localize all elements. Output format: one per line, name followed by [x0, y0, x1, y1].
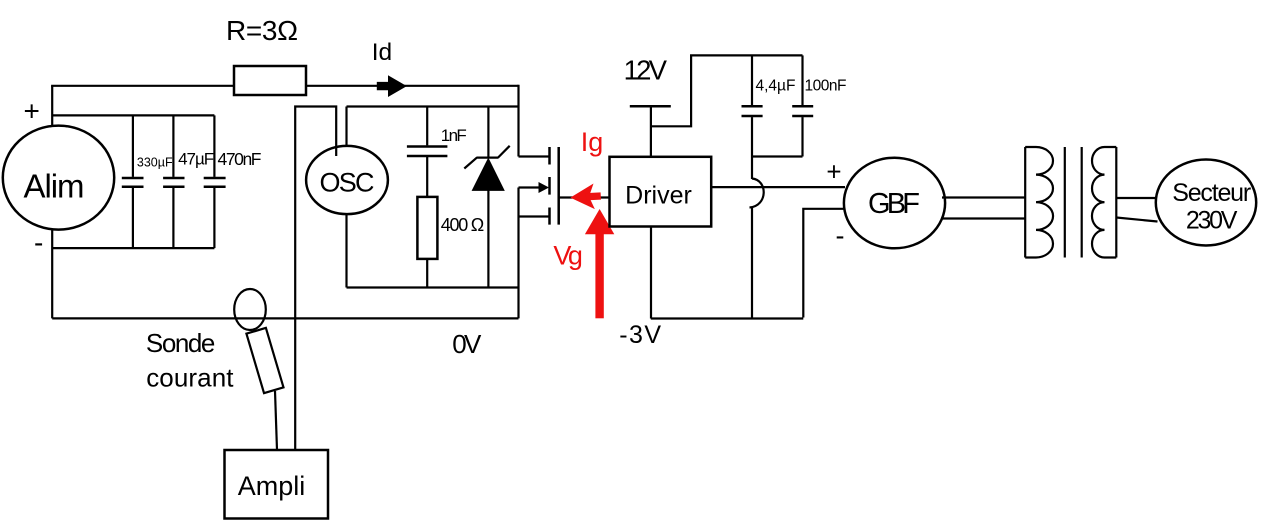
label 330uF: [137, 156, 173, 170]
svg-text:47µF: 47µF: [178, 150, 214, 169]
MOSFET body lead with arrow: [519, 182, 550, 193]
MOSFET gate lead to Driver: [559, 196, 610, 198]
arrow Id current direction: [377, 75, 407, 97]
svg-text:-: -: [34, 227, 43, 258]
svg-text:230V: 230V: [1186, 206, 1238, 234]
label OSC: [320, 168, 375, 198]
OSC circle: [306, 146, 388, 214]
label 400 ohm: [441, 215, 484, 235]
svg-text:R=3Ω: R=3Ω: [226, 15, 298, 46]
MOSFET channel bar segments: [548, 147, 551, 225]
svg-text:4,4µF: 4,4µF: [756, 78, 796, 95]
wire 12V to Driver top: [650, 106, 652, 157]
source Secteur circle: [1156, 160, 1256, 246]
wire capacitor bank top: [52, 114, 214, 116]
capacitor C3 470nF: [204, 115, 226, 248]
svg-text:470nF: 470nF: [218, 149, 262, 169]
svg-text:Alim: Alim: [24, 168, 85, 205]
svg-text:0V: 0V: [452, 329, 482, 359]
label 4,4uF: [756, 78, 796, 95]
wire source-body vertical to ground rail: [517, 188, 519, 319]
wire Alim top lead: [51, 86, 53, 126]
red arrow Ig: [570, 183, 602, 210]
svg-text:Id: Id: [372, 39, 392, 66]
svg-text:Sonde: Sonde: [146, 328, 216, 358]
label 470nF: [218, 149, 262, 169]
resistor 400 ohm: [417, 197, 437, 259]
svg-text:400 Ω: 400 Ω: [441, 215, 484, 235]
wire top rail left (Alim to R): [51, 85, 234, 87]
svg-text:330µF: 330µF: [137, 156, 173, 170]
label courant: [146, 363, 234, 393]
label Driver: [625, 182, 692, 210]
label minus GBF: [836, 220, 845, 250]
svg-text:Driver: Driver: [625, 182, 692, 210]
wire inner box bottom rail: [347, 286, 519, 288]
capacitor 100nF: [792, 55, 813, 156]
resistor R=3ohm: [234, 66, 306, 95]
svg-text:-3V: -3V: [619, 321, 661, 349]
wire Driver bottom to -3V rail: [650, 227, 652, 319]
GBF circle: [844, 158, 945, 249]
wire probe cable to Ampli: [275, 391, 277, 450]
transformer primary winding: [1025, 147, 1053, 258]
label plus GBF: [826, 157, 841, 187]
label Ig red: [581, 127, 604, 157]
wire GBF to transformer upper: [942, 196, 1025, 198]
label Id: [372, 39, 392, 66]
label minus Alim: [34, 227, 43, 258]
label Alim: [24, 168, 85, 205]
capacitor C2 47uF: [163, 115, 184, 248]
label Secteur: [1172, 179, 1251, 207]
sonde courant clamp ellipse: [234, 289, 266, 330]
svg-text:Ig: Ig: [581, 127, 604, 157]
label Sonde: [146, 328, 216, 358]
label Ampli: [238, 471, 306, 501]
label 230V: [1186, 206, 1238, 234]
wire transformer to Secteur lower: [1116, 218, 1157, 222]
capacitor 4,4uF: [742, 55, 763, 156]
zener diode bottom lead: [487, 190, 489, 287]
wire capacitor bank bottom: [52, 247, 214, 249]
MOSFET drain lead: [519, 155, 550, 157]
wire transformer to Secteur upper: [1116, 197, 1157, 199]
svg-text:OSC: OSC: [320, 168, 375, 198]
red arrow Vg: [585, 209, 614, 318]
label 100nF: [805, 78, 847, 95]
capacitor C1 330uF: [122, 115, 144, 248]
wire top rail right (R to MOSFET drain branch): [306, 85, 519, 87]
label 47uF: [178, 150, 214, 169]
label 12V: [624, 55, 668, 86]
svg-text:100nF: 100nF: [805, 78, 847, 95]
wire hop over driver output: [750, 179, 764, 208]
sonde courant probe body: [246, 328, 283, 393]
label GBF: [868, 188, 920, 220]
wire caps bottom junction rail: [752, 155, 803, 157]
transformer core lines: [1065, 147, 1082, 258]
label R=3ohm: [226, 15, 298, 46]
MOSFET source lead: [519, 215, 550, 217]
zener diode top lead: [487, 107, 489, 158]
zener diode cathode bar with wings: [464, 146, 509, 169]
wire inner box top rail: [347, 105, 519, 107]
wire GBF minus return: [803, 209, 845, 318]
svg-text:+: +: [24, 96, 40, 127]
svg-text:Ampli: Ampli: [238, 471, 306, 501]
label plus Alim: [24, 96, 40, 127]
wire 400 ohm bottom lead: [426, 259, 428, 288]
wire hop bottom to -3V rail: [751, 208, 753, 319]
label Vg red: [553, 240, 583, 270]
wire -3V rail: [651, 317, 804, 319]
svg-text:1nF: 1nF: [441, 126, 467, 145]
zener diode triangle: [472, 159, 504, 191]
wire ground rail bottom: [52, 317, 518, 319]
Driver box: [610, 157, 712, 227]
wire caps junction down to hop: [751, 157, 753, 180]
wire Driver output to GBF plus: [711, 186, 845, 188]
source Alim circle: [3, 126, 114, 230]
svg-text:-: -: [836, 220, 845, 250]
svg-text:GBF: GBF: [868, 188, 920, 220]
svg-text:12V: 12V: [624, 55, 668, 86]
svg-text:Vg: Vg: [553, 240, 583, 270]
transformer secondary winding: [1092, 147, 1116, 258]
svg-text:Secteur: Secteur: [1172, 179, 1251, 207]
label 0V: [452, 329, 482, 359]
wire 12V branch to caps top rail: [651, 55, 803, 127]
label -3V: [619, 321, 661, 349]
label 1nF: [441, 126, 467, 145]
12V terminal bar: [630, 105, 671, 108]
Ampli box: [225, 450, 329, 519]
wire OSC bottom lead (behind circle): [345, 107, 347, 288]
wire GBF to transformer lower: [941, 217, 1025, 219]
wire drain branch vertical: [517, 85, 519, 157]
MOSFET gate bar: [557, 147, 560, 225]
svg-text:courant: courant: [146, 363, 234, 393]
wire Alim bottom lead: [51, 230, 53, 319]
wire OSC top lead and cable to Ampli: [295, 107, 336, 450]
capacitor 1nF: [407, 107, 448, 197]
svg-text:+: +: [826, 157, 841, 187]
